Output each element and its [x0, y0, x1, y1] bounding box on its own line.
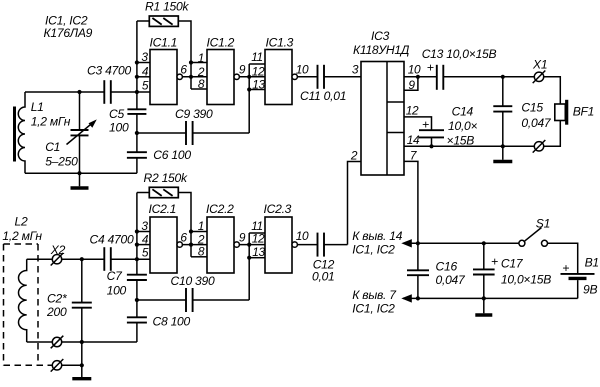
svg-text:1: 1	[198, 51, 204, 65]
svg-text:10,0×: 10,0×	[448, 119, 478, 133]
capacitor C9	[137, 107, 249, 145]
wire R1 left	[137, 20, 149, 22]
svg-text:X2: X2	[50, 243, 66, 257]
svg-text:10: 10	[296, 62, 309, 76]
svg-text:5: 5	[142, 246, 149, 260]
connector X2 middle	[51, 336, 64, 349]
wire IC2.3 pin13	[249, 257, 265, 259]
wire C3 to input node	[111, 91, 150, 93]
wire IC1.3 pin11	[249, 63, 265, 65]
svg-text:IC2.1: IC2.1	[149, 202, 177, 216]
ground (output)	[493, 146, 512, 161]
svg-text:IC1.3: IC1.3	[266, 36, 294, 50]
svg-text:2: 2	[350, 149, 358, 163]
wire IC3 pin7 down	[404, 161, 418, 243]
svg-text:1,2 мГн: 1,2 мГн	[2, 229, 42, 243]
svg-text:L1: L1	[31, 100, 44, 114]
op-amp gate IC1.3	[251, 36, 309, 105]
svg-text:C1: C1	[45, 140, 60, 154]
wire IC2.1 pin4	[137, 244, 150, 246]
svg-text:IC2.3: IC2.3	[264, 202, 292, 216]
svg-text:13: 13	[252, 245, 265, 259]
wire C2 to ground	[81, 342, 83, 365]
wire input node vertical (lower)	[136, 193, 138, 275]
capacitor C12	[297, 233, 347, 284]
wire R2 left	[137, 192, 149, 194]
speaker BF1	[555, 100, 594, 125]
wire IC3 pin2 down	[348, 162, 362, 245]
wire IC2.2 pin8	[191, 256, 207, 258]
wire tank bottom	[25, 172, 137, 174]
node dot pin4	[135, 75, 139, 79]
wire input node vertical	[136, 21, 138, 109]
svg-text:13: 13	[252, 77, 265, 91]
svg-text:8: 8	[198, 245, 205, 259]
op-amp U IC3 К118УН1Д	[350, 29, 421, 175]
battery B1	[561, 256, 599, 299]
wire IC3 pin9 loop	[404, 77, 418, 91]
capacitor C1 (variable)	[45, 92, 97, 173]
svg-text:5: 5	[142, 79, 149, 93]
capacitor C16	[407, 243, 466, 298]
node dot pin5	[135, 90, 139, 94]
svg-text:1,2 мГн: 1,2 мГн	[31, 115, 71, 129]
capacitor C7	[107, 269, 147, 298]
svg-text:C13 10,0×15В: C13 10,0×15В	[422, 47, 497, 61]
wire IC2.2 out to IC2.3 pin12	[239, 244, 265, 246]
svg-text:C9 390: C9 390	[175, 107, 213, 121]
svg-text:К выв. 7: К выв. 7	[352, 288, 397, 302]
svg-text:1: 1	[198, 219, 204, 233]
svg-text:B1: B1	[585, 256, 599, 270]
wire tank top	[25, 91, 104, 93]
node К выв. 7 rail	[352, 288, 577, 316]
svg-text:S1: S1	[536, 217, 550, 231]
header label IC1, IC2 К176ЛА9	[44, 14, 93, 41]
svg-text:IC2.2: IC2.2	[206, 202, 234, 216]
op-amp gate IC2.3	[251, 202, 309, 273]
connector X2 bottom	[51, 359, 64, 372]
svg-text:+: +	[491, 254, 498, 268]
svg-text:0,047: 0,047	[521, 116, 552, 130]
capacitor C10	[137, 274, 249, 312]
svg-text:IC1, IC2: IC1, IC2	[352, 302, 395, 316]
wire X2 bottom to ground	[62, 364, 82, 366]
wire C6 to tank bottom	[136, 158, 138, 173]
wire C4 to input node	[111, 258, 150, 260]
wire IC1.1 out to IC1.2 pin2	[182, 76, 207, 78]
svg-text:C5: C5	[109, 107, 124, 121]
wire C8 to X2 mid	[136, 323, 138, 342]
svg-text:3: 3	[352, 63, 359, 77]
svg-text:6: 6	[180, 230, 187, 244]
wire IC1.1 pin4	[137, 76, 150, 78]
svg-text:9В: 9В	[583, 283, 597, 297]
capacitor C2*	[46, 259, 92, 342]
wire IC1.2 pin1	[191, 62, 207, 64]
wire IC1.3 tie	[248, 64, 250, 133]
svg-text:R1 150k: R1 150k	[145, 0, 189, 14]
svg-text:C15: C15	[521, 101, 543, 115]
svg-text:R2 150k: R2 150k	[144, 171, 188, 185]
svg-text:К118УН1Д: К118УН1Д	[353, 43, 410, 57]
wire X1 top to BF1	[544, 77, 561, 104]
wire IC1.2 tie	[190, 63, 192, 90]
svg-text:BF1: BF1	[573, 105, 594, 119]
svg-text:0,047: 0,047	[436, 273, 467, 287]
svg-text:C16: C16	[436, 260, 458, 274]
svg-text:+: +	[562, 261, 569, 275]
wire L2 top to X2	[27, 258, 53, 260]
svg-text:10,0×15В: 10,0×15В	[501, 273, 551, 287]
svg-text:100: 100	[109, 121, 129, 135]
inductor L1	[15, 92, 71, 173]
wire IC2.2 pin1	[191, 231, 207, 233]
svg-text:12: 12	[252, 232, 265, 246]
svg-text:+: +	[427, 61, 434, 75]
wire IC3 pin12 to C14	[404, 117, 432, 130]
wire IC1.1 pin3	[137, 62, 150, 64]
connector X1 bottom	[533, 140, 546, 153]
capacitor C5	[109, 107, 146, 135]
svg-text:C7: C7	[107, 269, 123, 283]
node dot: C1 bottom	[77, 171, 81, 175]
wire X2 mid to C8	[62, 341, 137, 343]
wire R2 right	[178, 193, 191, 232]
wire BF1 to X1 bottom	[544, 121, 561, 147]
svg-text:IC1.1: IC1.1	[150, 36, 178, 50]
svg-text:C17: C17	[501, 257, 524, 271]
capacitor C6	[127, 148, 191, 162]
svg-text:6: 6	[180, 63, 187, 77]
capacitor C11	[297, 65, 361, 103]
svg-text:12: 12	[252, 64, 265, 78]
svg-text:+: +	[422, 117, 429, 131]
svg-text:9: 9	[239, 230, 246, 244]
wire IC3 pin10	[404, 76, 437, 78]
svg-text:0,01: 0,01	[312, 270, 335, 284]
connector X1 top	[532, 58, 547, 84]
resistor R2	[144, 171, 188, 198]
svg-text:C8 100: C8 100	[153, 315, 191, 329]
capacitor C13	[422, 47, 497, 90]
node К выв. 14 rail	[352, 229, 519, 257]
svg-text:11: 11	[251, 219, 263, 233]
wire L2 bottom to X2 mid	[27, 341, 53, 343]
svg-text:L2: L2	[15, 215, 28, 229]
svg-text:8: 8	[198, 77, 205, 91]
node dot pin3	[135, 60, 139, 64]
svg-text:7: 7	[410, 149, 417, 163]
capacitor C15	[493, 77, 552, 147]
node dot C9 junction	[135, 131, 139, 135]
resistor R1	[145, 0, 189, 26]
op-amp gate IC2.2	[197, 202, 246, 273]
switch S1	[519, 217, 550, 247]
svg-text:C10 390: C10 390	[171, 274, 215, 288]
svg-text:К выв. 14: К выв. 14	[352, 229, 402, 243]
wire C7 to C8	[136, 280, 138, 317]
connector X2 top	[50, 243, 66, 266]
capacitor C17	[473, 243, 551, 298]
node A dot: C1 top	[77, 90, 81, 94]
op-amp gate IC1.2	[197, 36, 246, 105]
wire IC2.1 out to IC2.2 pin2	[182, 244, 207, 246]
svg-text:C3 4700: C3 4700	[87, 64, 131, 78]
ground (tank)	[71, 173, 89, 188]
capacitor C3	[87, 64, 131, 104]
svg-text:9: 9	[239, 62, 246, 76]
svg-text:C11 0,01: C11 0,01	[300, 89, 346, 103]
wire IC2.2 tie	[190, 232, 192, 257]
wire S1 to battery	[548, 243, 578, 273]
svg-text:12: 12	[406, 104, 419, 118]
svg-text:IC1, IC2: IC1, IC2	[352, 243, 395, 257]
svg-text:C4 4700: C4 4700	[90, 233, 134, 247]
wire IC3 pin14 to X1 bottom	[404, 145, 534, 147]
op-amp gate IC1.1	[141, 36, 187, 105]
svg-text:X1: X1	[532, 58, 547, 72]
svg-text:IC3: IC3	[371, 29, 390, 43]
capacitor C4	[90, 233, 134, 271]
wire IC1.2 out to IC1.3 pin12	[239, 76, 265, 78]
inductor L2 (search coil)	[2, 215, 42, 343]
svg-text:10: 10	[296, 229, 309, 243]
svg-text:IC1.2: IC1.2	[207, 36, 235, 50]
svg-text:100: 100	[107, 284, 127, 298]
shield (dashed box)	[4, 244, 53, 365]
svg-text:×15В: ×15В	[447, 134, 475, 148]
svg-text:200: 200	[46, 305, 67, 319]
svg-text:5–250: 5–250	[45, 155, 78, 169]
wire IC2.3 tie	[248, 233, 250, 300]
svg-text:10: 10	[408, 62, 421, 76]
wire IC2.1 pin3	[137, 231, 150, 233]
capacitor C8	[127, 315, 191, 329]
op-amp gate IC2.1	[141, 202, 187, 273]
svg-text:C14: C14	[452, 105, 474, 119]
wire IC1.3 pin13	[249, 89, 265, 91]
wire C5 to C6	[136, 114, 138, 152]
wire R1 right	[178, 21, 191, 63]
svg-text:C6 100: C6 100	[153, 148, 191, 162]
svg-text:К176ЛА9: К176ЛА9	[44, 26, 93, 40]
svg-text:14: 14	[407, 133, 420, 147]
svg-text:11: 11	[251, 50, 263, 64]
ground (C17)	[475, 298, 492, 315]
wire X2 top to C4	[62, 258, 105, 260]
capacitor C14	[419, 105, 478, 148]
wire IC1.2 pin8	[191, 88, 207, 90]
svg-text:C2*: C2*	[47, 291, 68, 305]
wire C13 to X1	[443, 76, 534, 78]
ground (L2)	[72, 365, 91, 378]
wire IC2.3 pin11	[249, 232, 265, 234]
